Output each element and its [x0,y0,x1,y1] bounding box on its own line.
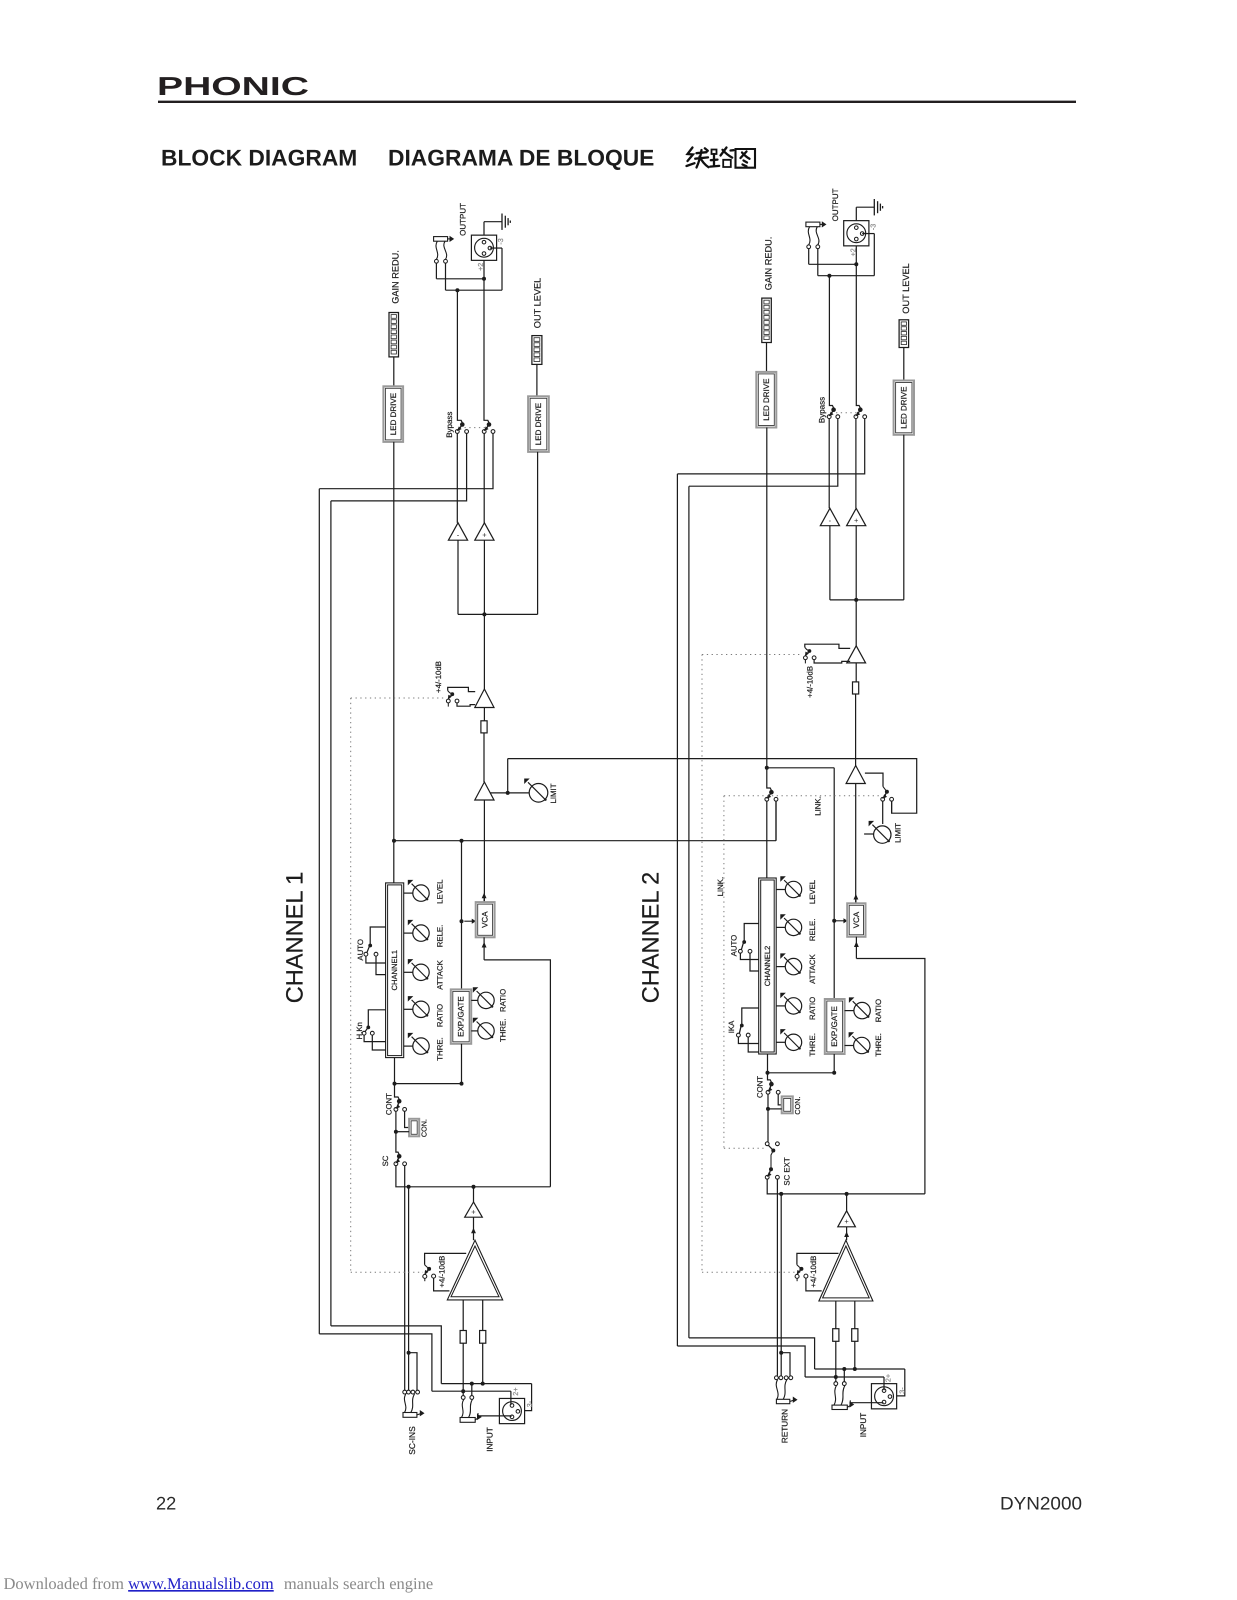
svg-text:LED DRIVE: LED DRIVE [762,379,771,421]
svg-text:Bypass: Bypass [445,412,454,438]
svg-text:LIMIT: LIMIT [893,823,902,843]
svg-text:+: + [844,1217,849,1226]
svg-text:INPUT: INPUT [859,1413,868,1438]
svg-text:3-: 3- [898,1387,907,1394]
svg-text:LED DRIVE: LED DRIVE [534,403,543,445]
svg-text:+2: +2 [848,248,857,256]
svg-text:-: - [829,516,832,525]
svg-text:OUT LEVEL: OUT LEVEL [533,278,543,328]
svg-text:CHANNEL2: CHANNEL2 [763,946,772,987]
svg-text:PHONIC: PHONIC [157,71,309,101]
svg-text:+4/-10dB: +4/-10dB [437,1256,446,1288]
svg-text:THRE.: THRE. [499,1019,508,1042]
svg-text:LED DRIVE: LED DRIVE [899,387,908,429]
svg-text:+4/-10dB: +4/-10dB [434,661,443,693]
svg-text:OUT LEVEL: OUT LEVEL [901,263,911,313]
svg-text:+4/-10dB: +4/-10dB [806,666,815,698]
svg-text:RETURN: RETURN [780,1409,789,1443]
svg-text:SC: SC [381,1155,390,1166]
svg-text:+4/-10dB: +4/-10dB [809,1256,818,1288]
svg-text:THRE.: THRE. [435,1037,444,1060]
svg-text:OUTPUT: OUTPUT [831,188,840,221]
svg-text:RATIO: RATIO [874,999,883,1022]
svg-text:LINK.: LINK. [814,796,823,816]
svg-text:Downloaded from www.Manualslib: Downloaded from www.Manualslib.com manua… [4,1574,434,1593]
svg-text:CONT: CONT [755,1076,764,1098]
svg-text:CON.: CON. [793,1097,802,1115]
svg-text:SC EXT: SC EXT [782,1157,791,1185]
svg-text:CHANNEL 1: CHANNEL 1 [283,872,309,1004]
svg-text:+: + [854,516,859,525]
svg-text:RATIO: RATIO [499,989,508,1012]
svg-text:AUTO: AUTO [356,939,365,961]
svg-text:THRE.: THRE. [808,1033,817,1056]
svg-text:EXP./GATE: EXP./GATE [830,1006,839,1047]
svg-text:H.Kn: H.Kn [355,1022,364,1039]
svg-text:BLOCK DIAGRAM: BLOCK DIAGRAM [161,145,357,171]
svg-text:RATIO: RATIO [435,1004,444,1027]
svg-text:ATTACK: ATTACK [435,959,444,989]
svg-text:OUTPUT: OUTPUT [459,203,468,236]
svg-text:LINK.: LINK. [716,877,725,897]
svg-text:DYN2000: DYN2000 [1000,1494,1082,1514]
svg-text:22: 22 [156,1494,176,1514]
svg-text:+2: +2 [476,263,485,271]
svg-text:RELE.: RELE. [435,925,444,948]
svg-text:2+: 2+ [884,1374,893,1382]
svg-text:EXP./GATE: EXP./GATE [457,996,466,1037]
svg-text:LEVEL: LEVEL [435,879,444,904]
svg-text:RATIO: RATIO [808,997,817,1020]
svg-text:CONT: CONT [385,1093,394,1115]
svg-text:LED DRIVE: LED DRIVE [389,393,398,435]
svg-text:GAIN REDU.: GAIN REDU. [763,237,773,291]
svg-text:CHANNEL 2: CHANNEL 2 [639,872,665,1004]
svg-text:RELE.: RELE. [808,919,817,942]
svg-text:Bypass: Bypass [818,397,827,423]
svg-text:INPUT: INPUT [486,1427,495,1452]
svg-text:AUTO: AUTO [729,935,738,957]
svg-text:VCA: VCA [481,911,490,928]
svg-text:THRE.: THRE. [874,1033,883,1056]
svg-text:-3: -3 [868,224,877,230]
svg-text:LEVEL: LEVEL [808,879,817,904]
svg-text:CHANNEL1: CHANNEL1 [390,950,399,991]
svg-text:3-: 3- [525,1400,534,1407]
svg-text:GAIN REDU.: GAIN REDU. [390,250,400,304]
svg-text:-: - [457,531,460,540]
svg-text:LIMIT: LIMIT [549,783,558,803]
svg-text:VCA: VCA [852,911,861,928]
svg-text:DIAGRAMA DE BLOQUE: DIAGRAMA DE BLOQUE [388,145,654,171]
svg-text:CON.: CON. [419,1119,428,1137]
svg-text:IKA: IKA [727,1020,736,1033]
svg-text:-3: -3 [496,238,505,244]
svg-text:SC-INS: SC-INS [407,1426,417,1455]
svg-text:2+: 2+ [511,1387,520,1395]
svg-text:+: + [471,1208,476,1217]
svg-text:ATTACK: ATTACK [808,954,817,984]
svg-text:+: + [482,531,487,540]
